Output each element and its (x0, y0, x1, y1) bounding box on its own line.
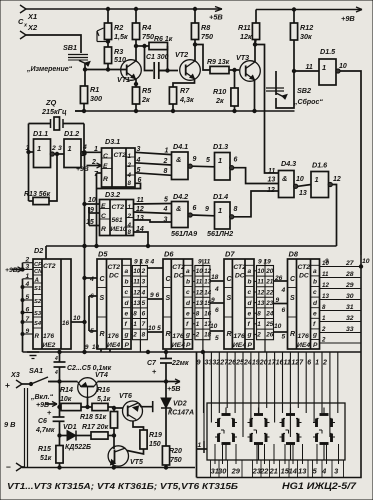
svg-text:9: 9 (325, 258, 329, 265)
svg-text:4: 4 (214, 286, 219, 293)
svg-text:2: 2 (322, 360, 327, 367)
zener VD2 КС147А (161, 382, 194, 447)
svg-text:4,3к: 4,3к (179, 95, 194, 104)
svg-text:10: 10 (274, 323, 282, 330)
resistor R14 10к (60, 387, 88, 411)
svg-text:4: 4 (127, 172, 132, 179)
display digit 1 segments (215, 408, 237, 461)
svg-text:11: 11 (257, 279, 264, 286)
svg-text:8: 8 (234, 206, 238, 213)
svg-text:S4: S4 (34, 321, 42, 327)
svg-text:11: 11 (284, 360, 291, 367)
svg-text:18: 18 (204, 332, 212, 339)
wire D8 S input (274, 297, 288, 314)
svg-text:e: e (313, 310, 317, 317)
svg-text:13: 13 (196, 300, 204, 307)
svg-text:2: 2 (163, 158, 168, 165)
svg-text:6: 6 (193, 205, 197, 212)
svg-text:S1: S1 (34, 286, 41, 292)
svg-text:b: b (186, 279, 190, 286)
wire D5 R input (89, 296, 97, 335)
counter D3.2 561ИЕ10 (100, 190, 134, 236)
wire node to D4.3 pin11 (255, 45, 279, 174)
svg-text:4: 4 (281, 287, 286, 294)
battery wires (4, 388, 28, 467)
svg-text:VD1: VD1 (63, 424, 77, 431)
resistor R7 4,3к (169, 86, 194, 111)
svg-text:18: 18 (211, 274, 219, 281)
svg-text:176: 176 (298, 333, 310, 340)
wire VT2 emitter to R7 (173, 79, 195, 87)
svg-text:1: 1 (26, 145, 30, 152)
wire D3.1 out3 (135, 146, 172, 155)
resistor R16 5,1к (88, 387, 115, 411)
svg-text:176: 176 (172, 333, 184, 340)
wire osc column low (83, 246, 86, 354)
wire table D5-D6 (132, 259, 154, 353)
inverter D1.3 561ЛН2 (206, 142, 279, 184)
svg-text:e: e (186, 310, 190, 317)
svg-text:R12: R12 (300, 23, 313, 32)
svg-text:3: 3 (26, 263, 30, 270)
svg-text:4: 4 (54, 370, 58, 376)
wire 10 vertical right (197, 255, 370, 478)
resistor R4 750 (132, 7, 154, 41)
svg-text:13: 13 (299, 190, 307, 197)
resistor R2 1,5к (trimmer) (97, 23, 128, 43)
wire VT6 collector bar (139, 401, 153, 412)
svg-text:R11: R11 (238, 23, 251, 32)
svg-text:S: S (227, 295, 232, 302)
svg-text:СТ2: СТ2 (233, 264, 246, 271)
svg-text:1: 1 (128, 204, 132, 211)
wire D3.1 out4 (135, 157, 172, 165)
wire display pin1 left (197, 352, 208, 478)
svg-text:6: 6 (307, 360, 311, 367)
svg-text:23: 23 (265, 300, 274, 307)
svg-text:R14: R14 (60, 387, 73, 394)
svg-text:5: 5 (164, 197, 168, 204)
svg-text:СТ2: СТ2 (43, 263, 56, 270)
svg-text:10: 10 (257, 268, 265, 275)
capacitor C6 4,7мк (35, 408, 65, 436)
svg-text:C: C (103, 153, 108, 160)
svg-text:SB2: SB2 (297, 86, 311, 95)
svg-text:D2: D2 (34, 246, 43, 255)
svg-text:a: a (248, 268, 252, 275)
svg-text:VT3: VT3 (236, 53, 249, 62)
svg-text:+: + (47, 408, 52, 417)
svg-text:11: 11 (322, 271, 329, 278)
wire R18 to VT6 base (114, 407, 123, 409)
resistor R3 510 (104, 40, 126, 72)
svg-text:C: C (101, 213, 106, 220)
wire rail to R2 (106, 7, 109, 23)
svg-text:VD2: VD2 (173, 401, 187, 408)
svg-text:33: 33 (205, 360, 213, 367)
svg-text:6: 6 (142, 311, 146, 318)
svg-text:9: 9 (205, 206, 209, 213)
wire D6 R input (147, 325, 163, 332)
counter D6 176ИЕ4 (163, 250, 193, 350)
svg-text:&: & (176, 204, 181, 213)
wire R19 to VT5 collector (114, 449, 144, 468)
svg-text:3: 3 (164, 217, 168, 224)
svg-text:ИЕ4: ИЕ4 (172, 342, 185, 349)
svg-text:24: 24 (243, 360, 252, 367)
svg-text:16: 16 (204, 311, 212, 318)
power +9V arrow bottom (36, 401, 57, 409)
wire D3.2 C input (89, 207, 100, 214)
switch SA1 (27, 366, 60, 386)
svg-text:S: S (166, 295, 171, 302)
svg-text:4: 4 (54, 356, 58, 362)
svg-text:X2: X2 (27, 23, 38, 32)
svg-text:2: 2 (321, 337, 326, 344)
svg-text:R16: R16 (97, 387, 110, 394)
svg-text:26: 26 (227, 360, 236, 367)
svg-text:1: 1 (26, 273, 30, 280)
svg-text:DC: DC (109, 273, 119, 280)
switch SB1 «Измерение» (63, 43, 90, 66)
display digit 2 segments (248, 408, 270, 461)
wire D6 S input (147, 292, 163, 299)
svg-text:2к: 2к (141, 95, 150, 104)
wire VT4 base down (86, 397, 89, 408)
svg-text:P: P (313, 342, 318, 349)
svg-text:13: 13 (298, 467, 307, 476)
svg-text:9 1 8 4: 9 1 8 4 (134, 259, 154, 266)
capacitor C7 22мк (147, 352, 189, 382)
wire VT6 emitter to R19 (133, 421, 144, 431)
wire D3.2 E input (85, 197, 100, 204)
wire D1.1 out to D1.2 (54, 152, 64, 155)
svg-text:g: g (185, 332, 190, 339)
svg-text:a: a (186, 268, 190, 275)
svg-text:+9В: +9В (341, 14, 355, 23)
svg-text:7: 7 (26, 316, 30, 323)
transistor VT1 (117, 60, 141, 84)
svg-text:2: 2 (195, 332, 200, 339)
svg-text:R: R (166, 331, 171, 338)
wire R8 node to R9 (195, 45, 210, 71)
svg-text:9 6: 9 6 (150, 292, 159, 299)
svg-text:300: 300 (90, 94, 102, 103)
label 561ЛН2 (207, 229, 233, 238)
svg-text:НG1 ИЖЦ2-5/7: НG1 ИЖЦ2-5/7 (282, 481, 357, 491)
svg-text:21: 21 (265, 279, 274, 286)
svg-text:СТ2: СТ2 (108, 264, 121, 271)
wire VT1 collector to R4 (134, 40, 137, 62)
svg-text:32: 32 (346, 315, 354, 322)
wire bottom bus (23, 350, 362, 353)
svg-text:g: g (247, 332, 252, 339)
svg-text:1: 1 (128, 153, 132, 160)
resistor R13 56к (24, 154, 57, 205)
svg-text:14: 14 (289, 467, 297, 476)
svg-text:6: 6 (234, 157, 238, 164)
svg-text:2: 2 (141, 268, 146, 275)
svg-text:9 В: 9 В (4, 420, 16, 429)
wire bus to D2 clock (45, 246, 47, 259)
wire R12 to SB2 (293, 40, 295, 95)
svg-text:&: & (176, 155, 181, 164)
svg-text:КС147А: КС147А (168, 410, 194, 417)
svg-text:11: 11 (137, 197, 144, 204)
wire D3.2 R input (86, 207, 100, 226)
svg-text:6: 6 (26, 307, 30, 314)
svg-text:C2...C5 0,1мк: C2...C5 0,1мк (67, 365, 112, 372)
svg-text:4: 4 (163, 206, 168, 213)
svg-text:176: 176 (43, 333, 54, 340)
wires D8 outputs to bus (320, 258, 362, 344)
svg-text:27: 27 (345, 260, 355, 267)
wire D7 S input (210, 297, 224, 314)
label Измерение (26, 66, 73, 73)
svg-text:7: 7 (142, 321, 146, 328)
svg-text:5: 5 (206, 157, 210, 164)
svg-text:1: 1 (196, 321, 200, 328)
svg-text:10: 10 (210, 323, 218, 330)
svg-text:1: 1 (315, 175, 319, 184)
svg-text:СТ2: СТ2 (172, 264, 185, 271)
svg-text:25: 25 (265, 321, 274, 328)
svg-text:c: c (313, 289, 317, 296)
svg-text:SA1: SA1 (29, 366, 43, 375)
svg-text:S: S (100, 295, 105, 302)
ground rail bottom (22, 466, 195, 469)
svg-text:b: b (313, 279, 317, 286)
resistor R8 750 (191, 7, 213, 41)
svg-text:10: 10 (73, 315, 81, 322)
svg-text:„Измерение“: „Измерение“ (26, 66, 73, 73)
svg-text:D1.1: D1.1 (33, 129, 48, 138)
nand gate D4.2 561ЛА9 (163, 192, 215, 228)
svg-text:„Вкл.“: „Вкл.“ (30, 394, 54, 401)
svg-text:10 5: 10 5 (148, 325, 161, 332)
svg-text:1: 1 (165, 148, 169, 155)
svg-text:e: e (248, 310, 252, 317)
svg-text:+5В: +5В (209, 13, 223, 22)
wire base VT1 (85, 69, 126, 71)
svg-text:8: 8 (164, 168, 168, 175)
svg-text:D8: D8 (289, 250, 299, 259)
svg-text:+: + (5, 380, 10, 390)
svg-text:D3.2: D3.2 (105, 190, 120, 199)
resistor R12 30к (290, 8, 313, 41)
svg-text:30: 30 (218, 467, 227, 476)
ground D2 (23, 352, 40, 359)
svg-text:VT2: VT2 (175, 50, 188, 59)
svg-text:R2: R2 (114, 23, 123, 32)
svg-text:ИЕ10: ИЕ10 (111, 226, 127, 233)
svg-text:215кГц: 215кГц (41, 107, 67, 116)
svg-text:3: 3 (142, 279, 146, 286)
svg-text:12: 12 (333, 176, 341, 183)
svg-text:28: 28 (345, 271, 354, 278)
resistor R6 1к (143, 36, 173, 50)
svg-text:150: 150 (149, 441, 161, 448)
svg-text:10к: 10к (60, 396, 72, 403)
wire analog ground rail (75, 109, 295, 112)
svg-text:20: 20 (265, 268, 274, 275)
svg-text:R10: R10 (213, 87, 226, 96)
svg-text:SB1: SB1 (63, 43, 77, 52)
wire D3.1 out6 (97, 177, 142, 189)
wire D3.2 out11 (134, 197, 172, 204)
inverter D1.4 561ЛН2 (205, 191, 279, 229)
wire D3.1 C input (83, 146, 102, 154)
wire D3.1 E input +9V (76, 159, 102, 173)
svg-text:5,1к: 5,1к (97, 396, 111, 403)
svg-text:9: 9 (193, 156, 197, 163)
transistor VT5 (108, 446, 143, 467)
svg-text:R: R (100, 331, 105, 338)
svg-text:„Сброс“: „Сброс“ (293, 98, 323, 106)
wire D7 C input (210, 274, 224, 293)
svg-text:VT1: VT1 (117, 75, 130, 84)
power +9V to D2 (5, 263, 24, 274)
wire D3.1 out5 (135, 167, 172, 175)
wire VT4 collector +5 (98, 381, 165, 383)
svg-text:9: 9 (26, 328, 30, 335)
capacitor C1 300 (146, 54, 169, 79)
transistor VT3 (236, 53, 260, 81)
svg-text:D4.1: D4.1 (173, 142, 188, 151)
svg-text:R19: R19 (149, 432, 162, 439)
label HG1 (282, 481, 357, 491)
svg-text:VT6: VT6 (119, 393, 132, 400)
inverter D1.1 (26, 129, 63, 168)
wire +9 node column (58, 380, 61, 417)
svg-text:ZQ: ZQ (45, 98, 57, 107)
wire +9V rail top (256, 9, 362, 11)
svg-text:ИЕ4: ИЕ4 (297, 342, 310, 349)
svg-text:ИЕ4: ИЕ4 (107, 342, 120, 349)
svg-text:ИЕ2: ИЕ2 (43, 342, 56, 349)
svg-text:R4: R4 (142, 23, 151, 32)
capacitor C2-C5 (54, 352, 112, 382)
svg-text:25: 25 (235, 360, 244, 367)
svg-text:C6: C6 (38, 418, 47, 425)
svg-text:e: e (125, 310, 129, 317)
svg-text:КД522Б: КД522Б (65, 444, 91, 451)
svg-text:8: 8 (196, 311, 200, 318)
svg-text:6: 6 (215, 307, 219, 314)
svg-text:+5В: +5В (167, 384, 180, 393)
wire D1.2 out node (83, 124, 86, 156)
counter D7 176ИЕ4 (224, 250, 254, 350)
svg-text:561ЛА9: 561ЛА9 (171, 229, 197, 238)
svg-text:&: & (282, 174, 287, 183)
wire X2 to SB1 (26, 35, 81, 53)
display HG1 box (207, 403, 345, 460)
wire R17 node (112, 428, 115, 449)
svg-text:32: 32 (212, 360, 220, 367)
svg-text:E: E (103, 163, 108, 170)
svg-text:1: 1 (68, 144, 72, 153)
svg-text:+9В: +9В (76, 166, 89, 173)
svg-text:D6: D6 (164, 250, 174, 259)
svg-text:CN: CN (34, 269, 43, 275)
wire VT3 collector to R11 (253, 40, 256, 62)
wire D6 C input (147, 267, 163, 269)
svg-text:561: 561 (112, 217, 123, 224)
svg-text:4: 4 (141, 289, 146, 296)
svg-text:VT4: VT4 (95, 372, 108, 379)
svg-text:R9 13к: R9 13к (207, 59, 230, 66)
resistor R1 300 (80, 85, 102, 111)
wire D3.1 R input (94, 171, 102, 248)
svg-text:S3: S3 (34, 311, 42, 317)
svg-text:10: 10 (339, 63, 347, 70)
svg-text:19: 19 (252, 360, 260, 367)
svg-text:VT1...VT3 КТ315А; VT4 КТ361Б;: VT1...VT3 КТ315А; VT4 КТ361Б; VT5,VT6 КТ… (7, 481, 238, 491)
svg-text:12: 12 (196, 289, 204, 296)
svg-text:СТ2: СТ2 (114, 152, 127, 159)
svg-text:13: 13 (322, 293, 329, 300)
svg-text:20: 20 (259, 360, 268, 367)
svg-text:СТ2: СТ2 (298, 264, 311, 271)
svg-text:561ЛН2: 561ЛН2 (207, 229, 233, 238)
svg-text:24: 24 (265, 311, 274, 318)
svg-text:X1: X1 (27, 12, 37, 21)
svg-text:DC: DC (235, 273, 245, 280)
nand gate D4.3 (267, 159, 311, 198)
wire D5 S input (89, 293, 97, 300)
svg-text:R6 1к: R6 1к (154, 36, 173, 43)
svg-text:a: a (313, 268, 317, 275)
wire D7 R input (210, 323, 224, 342)
svg-text:D5: D5 (98, 250, 108, 259)
svg-text:176: 176 (108, 333, 120, 340)
wire D2 out 16 (71, 315, 86, 324)
wire D5 bottom pins (85, 344, 110, 352)
svg-text:D7: D7 (225, 250, 235, 259)
svg-text:22мк: 22мк (171, 360, 189, 367)
svg-text:P: P (186, 342, 191, 349)
svg-text:1: 1 (133, 321, 137, 328)
svg-text:10: 10 (296, 176, 304, 183)
wire rail left end (75, 110, 84, 112)
svg-text:R: R (103, 176, 108, 183)
power +9V arrow (top rail) (341, 7, 362, 23)
svg-text:8: 8 (133, 311, 137, 318)
wire R9 to VT3 base (229, 68, 239, 71)
resistor R18 51к (80, 406, 118, 428)
svg-text:R15: R15 (38, 446, 51, 453)
diode VD1 КД522Б (58, 424, 91, 451)
svg-text:176: 176 (233, 333, 245, 340)
connector X3 plus (5, 370, 27, 390)
wires D7 segment outputs (254, 271, 257, 335)
wire R12 to D1.5 pin11 (292, 69, 319, 72)
wire SB1 to R1/base (83, 63, 86, 86)
svg-text:P: P (125, 342, 130, 349)
svg-text:14: 14 (204, 289, 212, 296)
svg-text:29: 29 (231, 467, 241, 476)
power +5V arrow (top rail) (209, 7, 223, 22)
switch SB2 «Сброс» (266, 71, 323, 108)
svg-text:4,7мк: 4,7мк (35, 427, 55, 434)
svg-text:C7: C7 (147, 360, 157, 367)
svg-text:11: 11 (268, 168, 275, 175)
svg-text:1: 1 (218, 206, 222, 215)
svg-text:2: 2 (132, 332, 137, 339)
svg-text:13: 13 (136, 215, 144, 222)
svg-text:16: 16 (276, 360, 284, 367)
svg-text:2: 2 (51, 145, 56, 152)
